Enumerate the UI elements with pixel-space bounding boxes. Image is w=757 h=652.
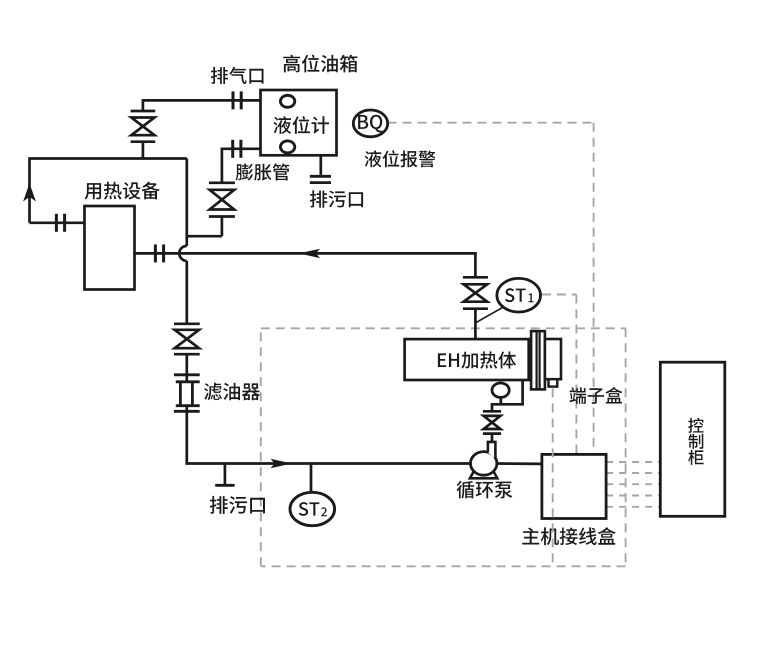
pump nozzle [488, 442, 496, 459]
wire dashed junction-box to control-cabinet link 4 [606, 495, 660, 497]
label 液位报警 [365, 150, 436, 167]
heater terminal box gland [549, 379, 558, 386]
label 滤油器 [204, 383, 260, 401]
wire heater-equipment inlet pipe [30, 221, 85, 224]
wire riser valve to filter stub [185, 354, 188, 382]
wire heater inlet elbow [474, 252, 477, 277]
wire vent valve upper stub [142, 99, 145, 111]
wire dashed terminal-box signal vertical [552, 388, 554, 566]
wire ST1 pointer line [476, 307, 504, 323]
wire expansion valve lower stub [221, 217, 224, 237]
wire return pipe from equipment to heater [135, 252, 477, 255]
valve on main riser [174, 322, 200, 325]
arrow left-flow on return pipe [299, 249, 320, 258]
equipment box 用热设备 [85, 206, 135, 290]
pump 循环泵 body [471, 452, 497, 476]
wire outlet jog horizontal [491, 403, 524, 406]
wire dashed ST1 signal vertical [575, 295, 577, 455]
valve on pump suction [483, 410, 501, 413]
label 膨胀管 [236, 163, 290, 180]
label 排气口 [211, 67, 264, 84]
label 循环泵 [457, 481, 513, 499]
tank 高位油箱 [261, 90, 337, 155]
tank drain port bars 排污口 [310, 175, 331, 178]
heater terminal box 端子盒 [545, 339, 561, 379]
filter upper flange bar [174, 373, 200, 376]
wire dashed BQ signal vertical [593, 123, 595, 455]
wire dashed junction-box to control-cabinet link 1 [606, 461, 660, 463]
label BQ [358, 115, 383, 133]
main junction box 主机接线盒 [542, 454, 606, 518]
drain port bar 排污口 [215, 484, 234, 487]
heater end flange stack [531, 331, 545, 389]
instrument bubble BQ level alarm [353, 110, 387, 137]
wire dashed junction-box to control-cabinet link 3 [606, 483, 660, 485]
control cabinet 控制柜 [660, 362, 725, 516]
valve on heater inlet [463, 276, 488, 279]
label 液位计 [273, 116, 329, 134]
wire pump valve to pump stub [491, 434, 494, 443]
label 主机接线盒 [522, 527, 616, 545]
wire dashed BQ signal horizontal [388, 122, 594, 124]
flange pair on return pipe [154, 244, 157, 262]
label 控制柜 vertical [688, 418, 703, 433]
label EH加热体 [438, 351, 516, 368]
filter lower flange bar [174, 410, 200, 413]
label ST2 [299, 502, 320, 516]
wire heater inlet valve to EH box [474, 309, 477, 339]
wire EH outlet drop [521, 380, 524, 404]
label ST1 [505, 288, 526, 302]
wire dashed junction-box to control-cabinet link 5 [606, 506, 660, 508]
wire jog down to pump valve [491, 404, 494, 411]
wire left riser pipe [28, 157, 31, 223]
wire drain stub on supply pipe [224, 464, 227, 485]
wire dashed control-loop boundary rectangle [261, 327, 626, 329]
wire gauge stem [499, 397, 502, 404]
filter 滤油器 body [176, 380, 200, 383]
sight glass upper port [280, 95, 294, 107]
label 高位油箱 [283, 55, 357, 73]
wire dashed junction-box to control-cabinet link 2 [606, 472, 660, 474]
wire tank drain stub [319, 155, 322, 176]
pipe crossing jump on main riser [179, 246, 187, 261]
wire main riser upper segment [185, 159, 188, 246]
wire dashed ST1 signal horizontal [542, 294, 576, 296]
wire ST2 stub [310, 464, 313, 493]
wire vent valve lower stub [142, 142, 145, 159]
wire bottom supply pipe right of pump [497, 462, 542, 465]
wire top loop horizontal pipe [30, 157, 187, 160]
flange pair on inlet pipe [55, 214, 58, 232]
wire main riser lower segment [185, 406, 188, 464]
wire vent pipe horizontal 排气口 [143, 99, 261, 102]
heater box EH加热体 [405, 339, 529, 380]
label 排污口 (tank) [310, 190, 363, 207]
valve on expansion line [209, 181, 235, 184]
label 排污口 (supply) [210, 496, 265, 514]
flange pair on vent pipe [232, 91, 235, 109]
gauge bubble [492, 383, 509, 397]
arrow right-flow on supply pipe [271, 459, 292, 468]
label 用热设备 [85, 182, 160, 200]
instrument bubble ST2 [290, 492, 335, 525]
sight glass lower port [280, 141, 294, 153]
arrow up-flow on left riser [23, 183, 36, 201]
wire bottom supply pipe left of pump [185, 462, 470, 465]
flange pair on expansion pipe [231, 140, 234, 158]
wire expansion valve upper stub [221, 148, 224, 183]
wire expansion branch to main riser [186, 235, 222, 238]
label 端子盒 [570, 387, 623, 404]
instrument bubble ST1 [497, 278, 541, 312]
valve on vent line [131, 110, 156, 113]
pump feet [470, 465, 497, 479]
wire main riser mid segment [185, 261, 188, 324]
wire expansion pipe horizontal 膨胀管 [222, 147, 261, 150]
